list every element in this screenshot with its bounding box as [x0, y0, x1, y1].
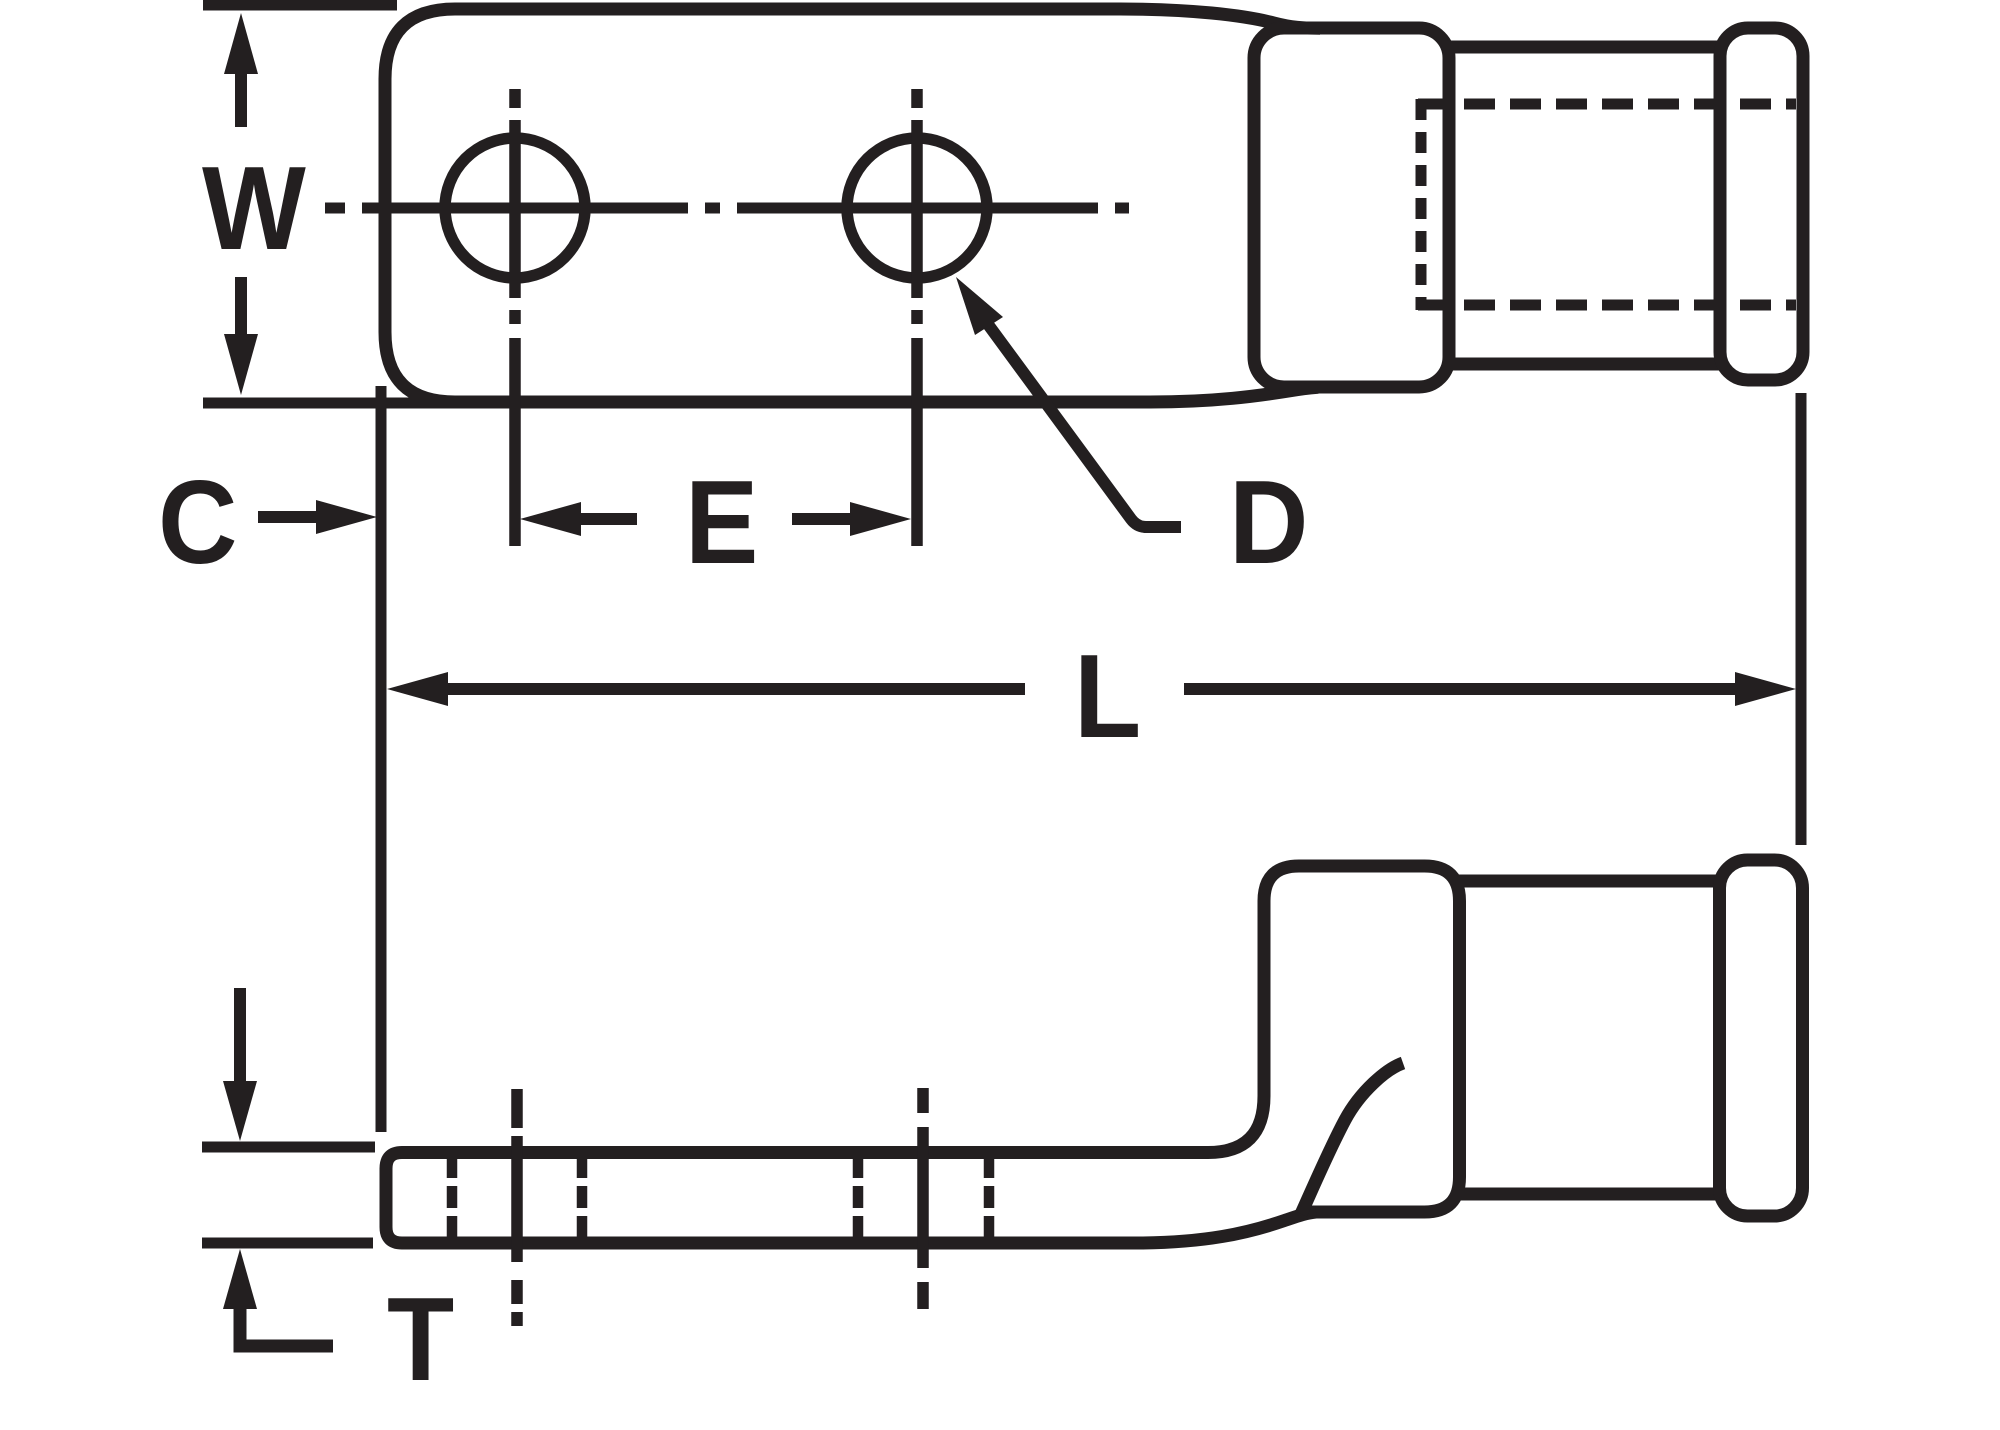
C / L left extension line — [376, 386, 387, 1132]
T top extension line — [202, 1142, 375, 1153]
T arrowhead down — [223, 1081, 257, 1141]
barrel top edge (top view) — [1449, 41, 1722, 54]
crimp collar with bend riser (side view) — [1208, 866, 1460, 1212]
svg-text:E: E — [685, 456, 758, 589]
W arrowhead up — [224, 13, 258, 74]
L right extension line — [1796, 393, 1807, 845]
T arrowhead up — [223, 1249, 257, 1309]
W dimension arrow up — [235, 71, 247, 127]
lug tongue outline (top view) — [385, 9, 1150, 402]
D arrowhead — [956, 277, 1003, 335]
hidden bore end line (top view) — [1416, 99, 1427, 310]
horizontal centerline through holes — [325, 203, 1129, 214]
L dimension line right segment — [1184, 683, 1736, 695]
T bottom extension line — [202, 1238, 373, 1249]
L arrowhead right — [1735, 672, 1796, 706]
C dimension arrow — [258, 511, 318, 523]
wire (tongue top edge transition into barrel, top view) — [1120, 9, 1320, 28]
T dimension arrow up leader — [240, 1307, 333, 1346]
barrel top edge (side view) — [1459, 875, 1722, 888]
barrel bottom edge (top view) — [1449, 358, 1722, 371]
W arrowhead down — [224, 334, 258, 395]
W dimension arrow down — [235, 277, 247, 334]
centerline hole 1 (side view) — [511, 1089, 523, 1326]
C arrowhead — [316, 500, 377, 534]
W top extension line — [203, 0, 397, 11]
side view tongue bar outline — [386, 1153, 1208, 1244]
svg-text:T: T — [387, 1273, 454, 1406]
L arrowhead left — [387, 672, 448, 706]
centerline hole 2 (side view) — [917, 1088, 929, 1309]
barrel bottom edge (side view) — [1459, 1188, 1722, 1201]
vertical centerline hole 1 (extends to E dimension) — [509, 89, 521, 546]
hidden bore line bottom (top view) — [1418, 300, 1796, 311]
svg-text:D: D — [1229, 456, 1308, 589]
E dimension left arrow shaft — [578, 513, 637, 525]
barrel end ring (top view) — [1720, 28, 1803, 380]
D leader line — [987, 323, 1181, 527]
hidden bore line top (top view) — [1418, 99, 1796, 110]
E arrowhead right — [850, 502, 911, 536]
E dimension right arrow shaft — [792, 513, 851, 525]
hidden hole edge lines hole 2 (side view) — [858, 1158, 989, 1238]
bolt hole 2 (top view) — [847, 138, 987, 278]
bolt hole 1 (top view) — [445, 138, 585, 278]
vertical centerline hole 2 (extends to E dimension) — [911, 89, 923, 546]
svg-text:C: C — [158, 456, 237, 589]
L dimension line left segment — [448, 683, 1025, 695]
svg-text:W: W — [202, 142, 306, 275]
wire (tongue bottom edge transition into barrel, top view) — [1150, 387, 1318, 402]
side view inner bend curve — [1301, 1063, 1403, 1214]
W bottom extension line — [203, 398, 460, 409]
svg-text:L: L — [1074, 630, 1141, 763]
side view tongue bottom transition curve — [1135, 1212, 1316, 1243]
hidden hole edge lines hole 1 (side view) — [452, 1158, 582, 1238]
barrel end ring (side view) — [1720, 860, 1803, 1216]
E arrowhead left — [520, 502, 581, 536]
T dimension arrow down shaft — [234, 988, 246, 1083]
crimp collar (top view) — [1254, 28, 1449, 387]
